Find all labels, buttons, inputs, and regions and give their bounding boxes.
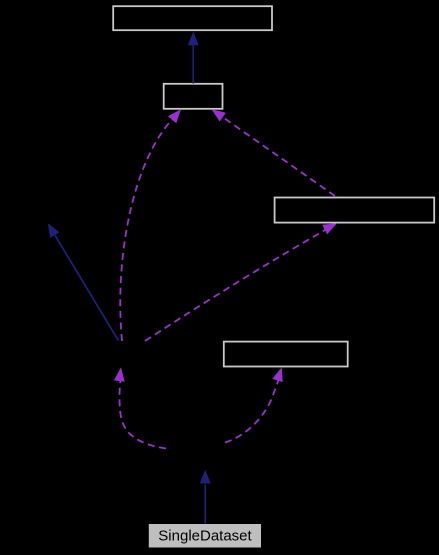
- inheritance arrow hidden row4 node to hidden row3 node: [43, 220, 118, 340]
- inheritance arrow box2 to box1: [188, 32, 199, 84]
- node SingleDataset: [149, 524, 261, 548]
- inheritance arrow SingleDataset to hidden node: [200, 470, 211, 524]
- node box right row3 (empty label): [275, 198, 435, 223]
- usage dashed line hidden row4 node to box3: [145, 218, 339, 341]
- svg-text:SingleDataset: SingleDataset: [158, 528, 252, 545]
- usage dashed curve hidden row4 node to box2: [120, 106, 185, 341]
- usage dashed curve hidden row5 node to hidden row4 node: [114, 367, 166, 449]
- usage dashed line box3 to box2: [208, 105, 335, 196]
- usage dashed curve hidden row5 node to box4: [225, 366, 287, 443]
- node box second row (empty label): [164, 84, 223, 109]
- node box row4 (empty label): [224, 342, 348, 367]
- node box top (empty label): [113, 6, 272, 30]
